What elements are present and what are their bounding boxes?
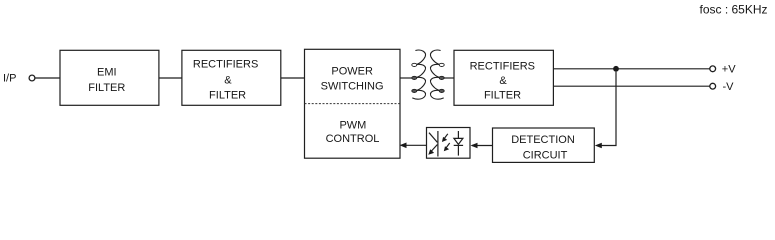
wire optocoupler to PWM control (402, 144, 427, 146)
wire -V output (553, 85, 709, 87)
svg-text:FILTER: FILTER (209, 90, 246, 102)
svg-text:RECTIFIERS: RECTIFIERS (193, 59, 258, 71)
wire transformer secondary to rectifiers (444, 77, 455, 79)
transformer T1 primary winding (412, 50, 426, 99)
svg-text:I/P: I/P (3, 72, 16, 84)
wire +V output (553, 68, 709, 70)
phototransistor emitter arrowhead (428, 149, 434, 154)
junction node on +V line (613, 66, 619, 72)
optocoupler U1 box (427, 128, 471, 159)
svg-text:&: & (499, 75, 507, 87)
svg-text:RECTIFIERS: RECTIFIERS (470, 60, 535, 72)
wire input to EMI filter (35, 77, 60, 79)
optocoupler LED (454, 131, 463, 156)
arrowhead into optocoupler (471, 143, 478, 149)
svg-text:FILTER: FILTER (484, 89, 521, 101)
wire power switching to transformer primary (400, 77, 413, 79)
wire EMI to rectifiers (159, 77, 182, 79)
arrowhead into PWM control (400, 143, 407, 149)
optocoupler phototransistor (429, 131, 438, 157)
svg-text:CIRCUIT: CIRCUIT (523, 150, 568, 162)
block DETECTION CIRCUIT (493, 128, 595, 162)
light arrow 1 (444, 134, 448, 139)
light arrow 2 (446, 143, 450, 148)
terminal +V (710, 66, 716, 72)
svg-text:+V: +V (722, 64, 736, 76)
svg-text:SWITCHING: SWITCHING (321, 81, 384, 93)
wire rectifiers to power switching (281, 77, 305, 79)
block RECTIFIERS & FILTER (output side) (454, 50, 553, 105)
block EMI FILTER (60, 50, 159, 105)
block RECTIFIERS & FILTER (input side) (182, 50, 281, 105)
svg-text:fosc : 65KHz: fosc : 65KHz (699, 2, 767, 16)
svg-text:PWM: PWM (339, 120, 366, 132)
svg-text:-V: -V (723, 81, 735, 93)
wire detection circuit to optocoupler (472, 145, 493, 147)
input terminal circle (29, 75, 35, 81)
svg-text:POWER: POWER (331, 66, 373, 78)
arrowhead into detection circuit (595, 143, 602, 149)
transformer T1 secondary winding (mirror) (430, 50, 444, 99)
svg-text:CONTROL: CONTROL (326, 133, 380, 145)
terminal -V (710, 83, 716, 89)
svg-text:&: & (224, 75, 232, 87)
wire feedback vertical from junction (597, 72, 616, 146)
block POWER SWITCHING / PWM CONTROL (305, 49, 401, 158)
svg-text:FILTER: FILTER (88, 82, 125, 94)
svg-text:EMI: EMI (97, 67, 117, 79)
svg-text:DETECTION: DETECTION (511, 134, 575, 146)
